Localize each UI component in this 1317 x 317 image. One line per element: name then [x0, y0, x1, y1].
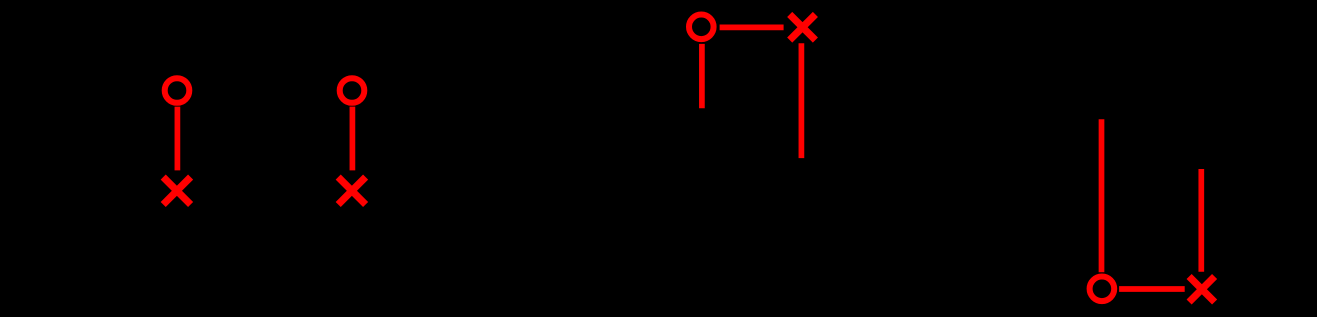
- loop 3: wire W5 (below X3): [799, 43, 805, 158]
- loop 4: wire W6 (above O4): [1099, 119, 1105, 272]
- loop 1: current-in symbol X1: [163, 177, 190, 204]
- loop 1: wire W1: [175, 107, 181, 171]
- loop 4: current-in symbol X4: [1189, 277, 1215, 303]
- loop 2: wire W2: [350, 107, 356, 171]
- loop 3: current-in symbol X3: [790, 14, 816, 40]
- loop 1: current-out symbol O1: [165, 78, 190, 103]
- loop 4: wire W8 (above X4): [1198, 169, 1204, 272]
- loop 2: current-out symbol O2: [340, 78, 365, 103]
- loop 4: current-out symbol O4: [1090, 277, 1115, 302]
- loop 4: wire W7 (horizontal): [1119, 286, 1185, 292]
- loop 3: wire W4 (below O3): [699, 44, 705, 108]
- loop 3: wire W3 (horizontal): [720, 25, 784, 31]
- loop 3: current-out symbol O3: [689, 14, 714, 39]
- loop 2: current-in symbol X2: [338, 177, 365, 204]
